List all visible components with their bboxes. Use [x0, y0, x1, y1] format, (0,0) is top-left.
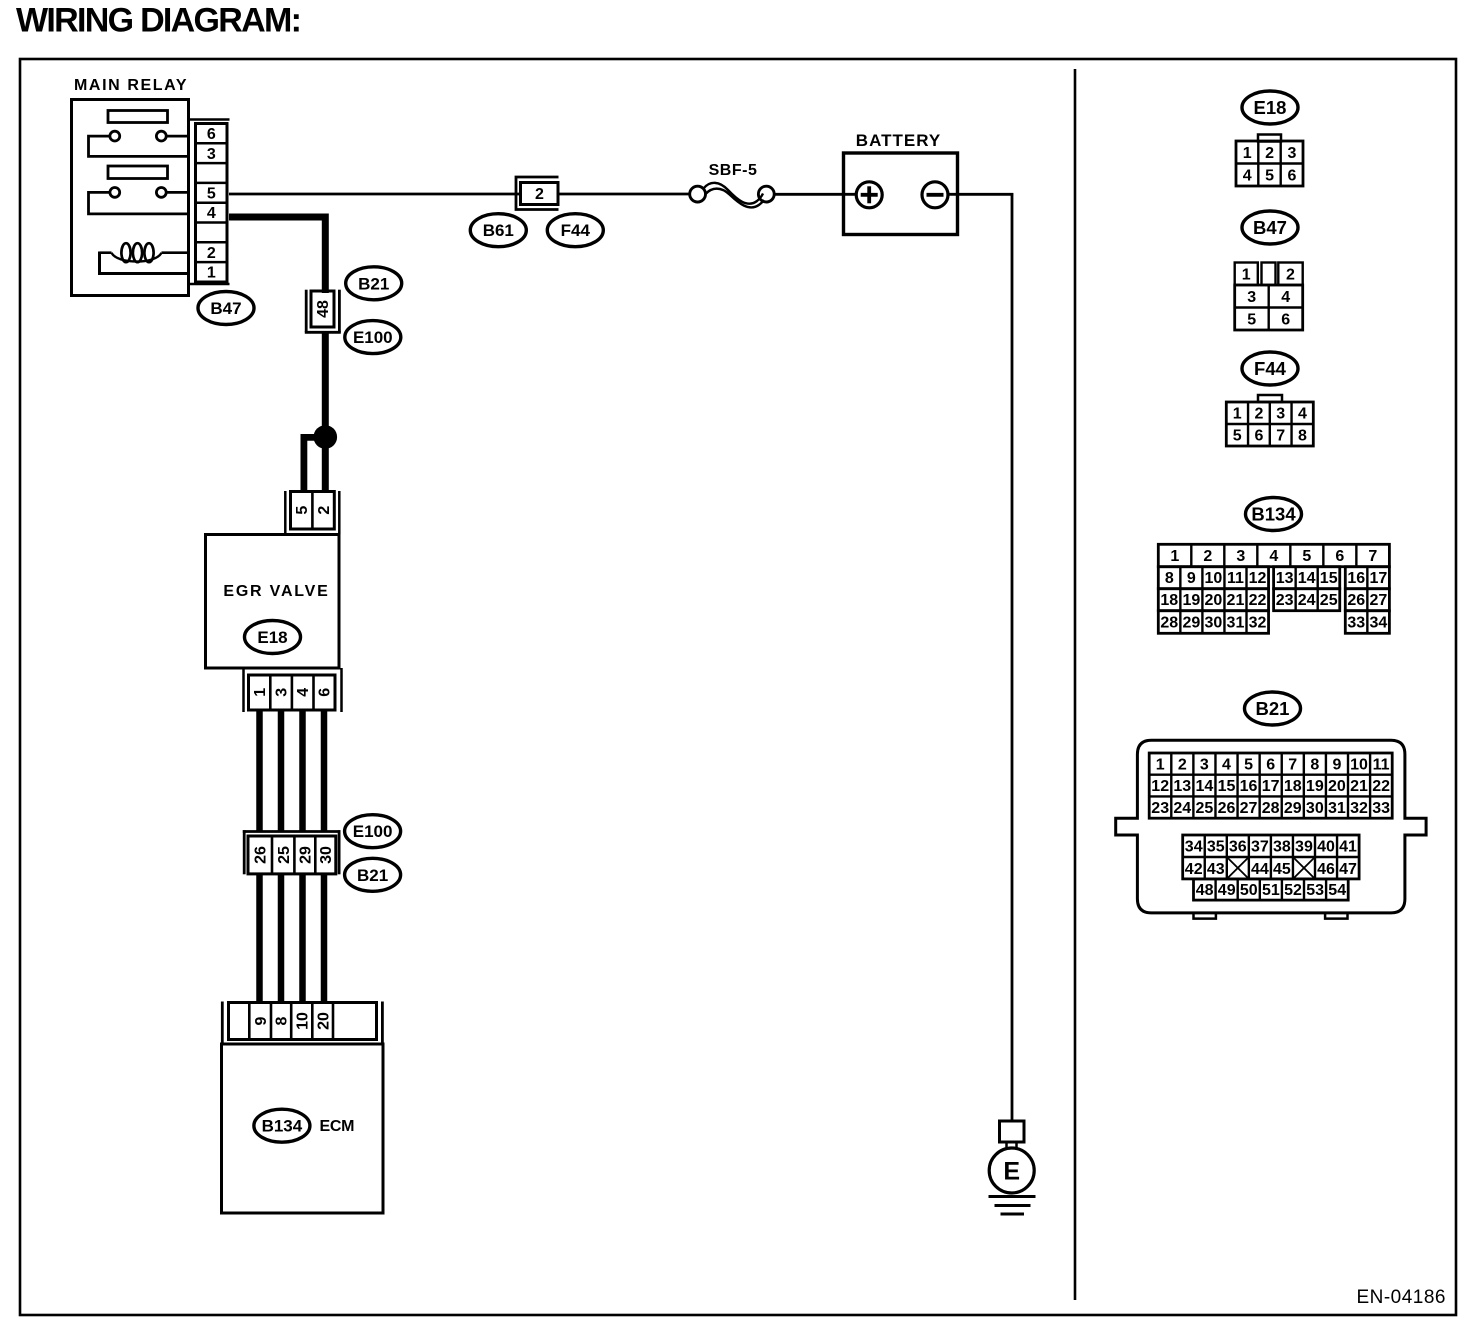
svg-text:1: 1 — [1156, 756, 1165, 773]
svg-text:E18: E18 — [257, 628, 287, 647]
svg-text:11: 11 — [1227, 570, 1244, 587]
svg-text:3: 3 — [1236, 548, 1245, 565]
svg-text:4: 4 — [1281, 289, 1290, 306]
svg-text:4: 4 — [1269, 548, 1278, 565]
svg-text:33: 33 — [1372, 800, 1390, 817]
svg-text:8: 8 — [274, 1016, 291, 1025]
svg-text:35: 35 — [1207, 838, 1225, 855]
svg-text:26: 26 — [1218, 800, 1236, 817]
svg-text:3: 3 — [1200, 756, 1209, 773]
svg-text:47: 47 — [1339, 861, 1357, 878]
svg-text:E100: E100 — [353, 822, 393, 841]
svg-text:2: 2 — [535, 186, 544, 203]
svg-text:44: 44 — [1251, 861, 1269, 878]
svg-text:B61: B61 — [483, 221, 514, 240]
svg-text:27: 27 — [1240, 800, 1258, 817]
svg-text:32: 32 — [1350, 800, 1368, 817]
svg-text:3: 3 — [274, 688, 291, 697]
svg-text:25: 25 — [1320, 592, 1338, 609]
svg-text:39: 39 — [1295, 838, 1313, 855]
svg-text:B47: B47 — [210, 299, 241, 318]
svg-text:8: 8 — [1310, 756, 1319, 773]
svg-text:34: 34 — [1185, 838, 1203, 855]
svg-text:F44: F44 — [561, 221, 591, 240]
svg-text:24: 24 — [1173, 800, 1191, 817]
svg-text:19: 19 — [1182, 592, 1200, 609]
svg-text:5: 5 — [207, 185, 216, 202]
svg-text:20: 20 — [1328, 778, 1346, 795]
svg-text:12: 12 — [1151, 778, 1169, 795]
svg-text:1: 1 — [252, 688, 269, 697]
svg-text:3: 3 — [1247, 289, 1256, 306]
svg-text:28: 28 — [1262, 800, 1280, 817]
svg-text:21: 21 — [1350, 778, 1368, 795]
svg-text:30: 30 — [318, 846, 335, 864]
svg-text:4: 4 — [207, 205, 216, 222]
svg-text:10: 10 — [294, 1012, 311, 1030]
svg-text:6: 6 — [207, 126, 216, 143]
svg-text:2: 2 — [1286, 266, 1295, 283]
svg-text:8: 8 — [1298, 428, 1307, 445]
svg-text:30: 30 — [1205, 614, 1223, 631]
svg-text:6: 6 — [1335, 548, 1344, 565]
svg-text:13: 13 — [1276, 570, 1294, 587]
svg-text:2: 2 — [207, 245, 216, 262]
svg-text:9: 9 — [1332, 756, 1341, 773]
svg-text:7: 7 — [1276, 428, 1285, 445]
svg-text:43: 43 — [1207, 861, 1225, 878]
svg-text:41: 41 — [1339, 838, 1357, 855]
svg-text:ECM: ECM — [320, 1118, 355, 1135]
svg-text:2: 2 — [316, 506, 333, 515]
svg-text:9: 9 — [1187, 570, 1196, 587]
svg-text:20: 20 — [315, 1012, 332, 1030]
svg-text:1: 1 — [1170, 548, 1179, 565]
svg-text:5: 5 — [1247, 311, 1256, 328]
svg-text:46: 46 — [1317, 861, 1335, 878]
svg-text:22: 22 — [1372, 778, 1390, 795]
svg-text:20: 20 — [1205, 592, 1223, 609]
svg-text:40: 40 — [1317, 838, 1335, 855]
svg-text:BATTERY: BATTERY — [856, 131, 941, 150]
svg-text:48: 48 — [315, 300, 332, 318]
svg-text:27: 27 — [1369, 592, 1387, 609]
svg-text:29: 29 — [1182, 614, 1200, 631]
svg-text:50: 50 — [1240, 882, 1258, 899]
svg-text:4: 4 — [1298, 406, 1307, 423]
svg-text:16: 16 — [1240, 778, 1258, 795]
svg-text:21: 21 — [1227, 592, 1245, 609]
svg-text:48: 48 — [1196, 882, 1214, 899]
svg-text:6: 6 — [1287, 167, 1296, 184]
svg-text:49: 49 — [1218, 882, 1236, 899]
svg-text:24: 24 — [1298, 592, 1316, 609]
svg-text:52: 52 — [1284, 882, 1302, 899]
svg-text:30: 30 — [1306, 800, 1324, 817]
svg-text:53: 53 — [1306, 882, 1324, 899]
svg-text:10: 10 — [1205, 570, 1223, 587]
svg-text:38: 38 — [1273, 838, 1291, 855]
svg-text:2: 2 — [1203, 548, 1212, 565]
svg-text:12: 12 — [1249, 570, 1267, 587]
svg-text:45: 45 — [1273, 861, 1291, 878]
svg-text:10: 10 — [1350, 756, 1368, 773]
svg-text:26: 26 — [1347, 592, 1365, 609]
svg-text:34: 34 — [1369, 614, 1387, 631]
svg-text:B21: B21 — [358, 274, 389, 293]
svg-text:6: 6 — [1281, 311, 1290, 328]
svg-text:32: 32 — [1249, 614, 1267, 631]
svg-text:5: 5 — [294, 506, 311, 515]
svg-text:29: 29 — [1284, 800, 1302, 817]
svg-text:23: 23 — [1276, 592, 1294, 609]
svg-text:7: 7 — [1288, 756, 1297, 773]
svg-text:25: 25 — [276, 846, 293, 864]
svg-text:25: 25 — [1195, 800, 1213, 817]
svg-text:5: 5 — [1233, 428, 1242, 445]
svg-text:SBF-5: SBF-5 — [709, 162, 758, 179]
svg-text:WIRING DIAGRAM:: WIRING DIAGRAM: — [16, 2, 300, 40]
svg-text:14: 14 — [1298, 570, 1316, 587]
svg-text:7: 7 — [1368, 548, 1377, 565]
svg-text:1: 1 — [207, 265, 216, 282]
svg-text:E: E — [1003, 1157, 1020, 1185]
svg-text:E100: E100 — [353, 328, 393, 347]
svg-text:31: 31 — [1227, 614, 1245, 631]
svg-text:5: 5 — [1265, 167, 1274, 184]
svg-text:18: 18 — [1284, 778, 1302, 795]
svg-text:2: 2 — [1254, 406, 1263, 423]
svg-text:5: 5 — [1302, 548, 1311, 565]
svg-text:E18: E18 — [1254, 97, 1287, 118]
svg-text:B21: B21 — [357, 866, 388, 885]
svg-text:22: 22 — [1249, 592, 1267, 609]
svg-text:B134: B134 — [1251, 503, 1296, 524]
svg-text:1: 1 — [1242, 266, 1251, 283]
svg-text:51: 51 — [1262, 882, 1280, 899]
svg-text:29: 29 — [298, 846, 315, 864]
svg-text:5: 5 — [1244, 756, 1253, 773]
svg-text:4: 4 — [295, 688, 312, 697]
svg-text:54: 54 — [1328, 882, 1346, 899]
svg-text:23: 23 — [1151, 800, 1169, 817]
svg-text:4: 4 — [1222, 756, 1231, 773]
svg-text:14: 14 — [1195, 778, 1213, 795]
svg-text:9: 9 — [253, 1016, 270, 1025]
svg-text:17: 17 — [1369, 570, 1387, 587]
svg-text:16: 16 — [1347, 570, 1365, 587]
svg-text:42: 42 — [1185, 861, 1203, 878]
svg-text:15: 15 — [1320, 570, 1338, 587]
svg-text:6: 6 — [1254, 428, 1263, 445]
svg-text:3: 3 — [207, 146, 216, 163]
svg-text:B21: B21 — [1256, 698, 1290, 719]
svg-text:37: 37 — [1251, 838, 1269, 855]
svg-text:36: 36 — [1229, 838, 1247, 855]
svg-text:F44: F44 — [1254, 358, 1287, 379]
svg-text:EGR VALVE: EGR VALVE — [223, 583, 329, 600]
svg-text:EN-04186: EN-04186 — [1356, 1287, 1446, 1308]
svg-text:17: 17 — [1262, 778, 1280, 795]
svg-text:2: 2 — [1178, 756, 1187, 773]
svg-text:11: 11 — [1373, 756, 1390, 773]
svg-text:1: 1 — [1243, 145, 1252, 162]
svg-text:31: 31 — [1328, 800, 1346, 817]
svg-text:6: 6 — [317, 688, 334, 697]
svg-text:B134: B134 — [262, 1117, 303, 1136]
svg-text:1: 1 — [1233, 406, 1242, 423]
svg-text:4: 4 — [1243, 167, 1252, 184]
svg-text:2: 2 — [1265, 145, 1274, 162]
svg-text:6: 6 — [1266, 756, 1275, 773]
svg-text:15: 15 — [1218, 778, 1236, 795]
svg-text:28: 28 — [1160, 614, 1178, 631]
svg-text:18: 18 — [1160, 592, 1178, 609]
svg-text:33: 33 — [1347, 614, 1365, 631]
svg-text:MAIN RELAY: MAIN RELAY — [74, 77, 188, 94]
svg-text:26: 26 — [253, 846, 270, 864]
svg-text:13: 13 — [1173, 778, 1191, 795]
svg-text:B47: B47 — [1253, 217, 1287, 238]
svg-text:3: 3 — [1276, 406, 1285, 423]
svg-text:3: 3 — [1287, 145, 1296, 162]
svg-text:19: 19 — [1306, 778, 1324, 795]
svg-text:8: 8 — [1165, 570, 1174, 587]
